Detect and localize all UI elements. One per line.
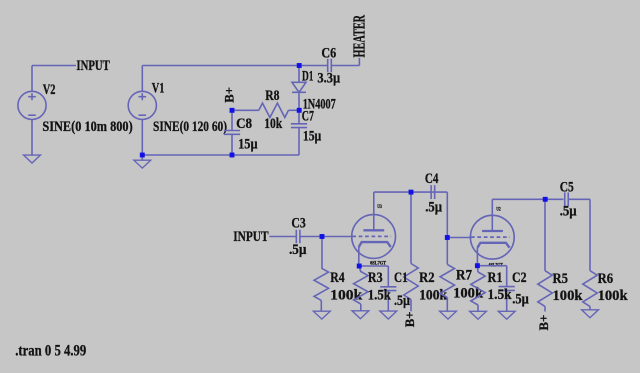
svg-text:INPUT: INPUT bbox=[233, 229, 268, 245]
svg-text:B+: B+ bbox=[222, 87, 237, 103]
svg-text:.5µ: .5µ bbox=[289, 242, 307, 258]
svg-text:SINE(0 120 60): SINE(0 120 60) bbox=[153, 119, 227, 135]
svg-text:15µ: 15µ bbox=[303, 129, 322, 145]
svg-text:100k: 100k bbox=[330, 288, 363, 304]
svg-text:C4: C4 bbox=[425, 171, 439, 187]
svg-text:15µ: 15µ bbox=[238, 136, 258, 152]
svg-text:C2: C2 bbox=[512, 270, 527, 286]
svg-text:100k: 100k bbox=[553, 288, 584, 304]
svg-text:3.3µ: 3.3µ bbox=[317, 71, 340, 87]
svg-text:D1: D1 bbox=[302, 69, 314, 85]
svg-text:R5: R5 bbox=[553, 271, 569, 287]
svg-text:10k: 10k bbox=[264, 116, 283, 132]
svg-text:.tran 0 5 4.99: .tran 0 5 4.99 bbox=[15, 342, 86, 359]
svg-text:V1: V1 bbox=[152, 81, 165, 97]
svg-text:R4: R4 bbox=[330, 270, 345, 286]
svg-text:100k: 100k bbox=[453, 286, 484, 302]
svg-text:C3: C3 bbox=[291, 216, 305, 232]
svg-text:.5µ: .5µ bbox=[394, 293, 410, 309]
svg-text:INPUT: INPUT bbox=[76, 58, 109, 74]
svg-text:R6: R6 bbox=[598, 271, 614, 287]
svg-text:1.5k: 1.5k bbox=[368, 288, 392, 304]
svg-text:U3: U3 bbox=[377, 204, 382, 210]
svg-text:R2: R2 bbox=[419, 270, 435, 286]
svg-text:B+: B+ bbox=[536, 315, 551, 331]
svg-text:C6: C6 bbox=[321, 45, 336, 61]
svg-text:U2: U2 bbox=[496, 207, 501, 213]
svg-text:SINE(0 10m 800): SINE(0 10m 800) bbox=[42, 119, 132, 135]
svg-text:.5µ: .5µ bbox=[425, 200, 442, 216]
svg-text:100k: 100k bbox=[598, 288, 629, 304]
svg-text:R7: R7 bbox=[456, 268, 472, 284]
svg-text:.5µ: .5µ bbox=[560, 204, 577, 220]
svg-text:1.5k: 1.5k bbox=[488, 287, 513, 303]
svg-text:C7: C7 bbox=[302, 108, 314, 124]
svg-text:R8: R8 bbox=[265, 88, 279, 104]
svg-text:HEATER: HEATER bbox=[349, 14, 368, 57]
svg-text:R1: R1 bbox=[488, 270, 503, 286]
svg-text:C8: C8 bbox=[236, 116, 252, 132]
svg-text:C1: C1 bbox=[394, 270, 408, 286]
svg-text:.5µ: .5µ bbox=[512, 292, 529, 308]
svg-text:B+: B+ bbox=[402, 312, 417, 328]
svg-text:C5: C5 bbox=[560, 180, 574, 196]
svg-text:R3: R3 bbox=[368, 270, 383, 286]
svg-text:V2: V2 bbox=[43, 82, 56, 98]
